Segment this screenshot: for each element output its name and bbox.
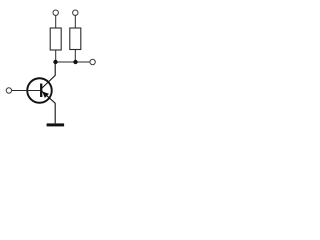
wire [74,50,76,63]
wire bus [55,61,90,63]
terminal right [90,59,95,64]
junction dot [73,60,77,64]
wire [55,16,57,29]
wire [55,50,57,62]
terminal base-left [6,88,11,93]
resistor R1 [50,28,61,50]
wire base [12,90,41,92]
terminal top-right [73,10,78,15]
wire [74,16,76,29]
junction dot [53,60,57,64]
wire collector [41,62,55,89]
resistor R2 [70,28,81,50]
ground [47,123,65,126]
terminal top-left [53,10,58,15]
transistor Q1 [27,78,55,123]
